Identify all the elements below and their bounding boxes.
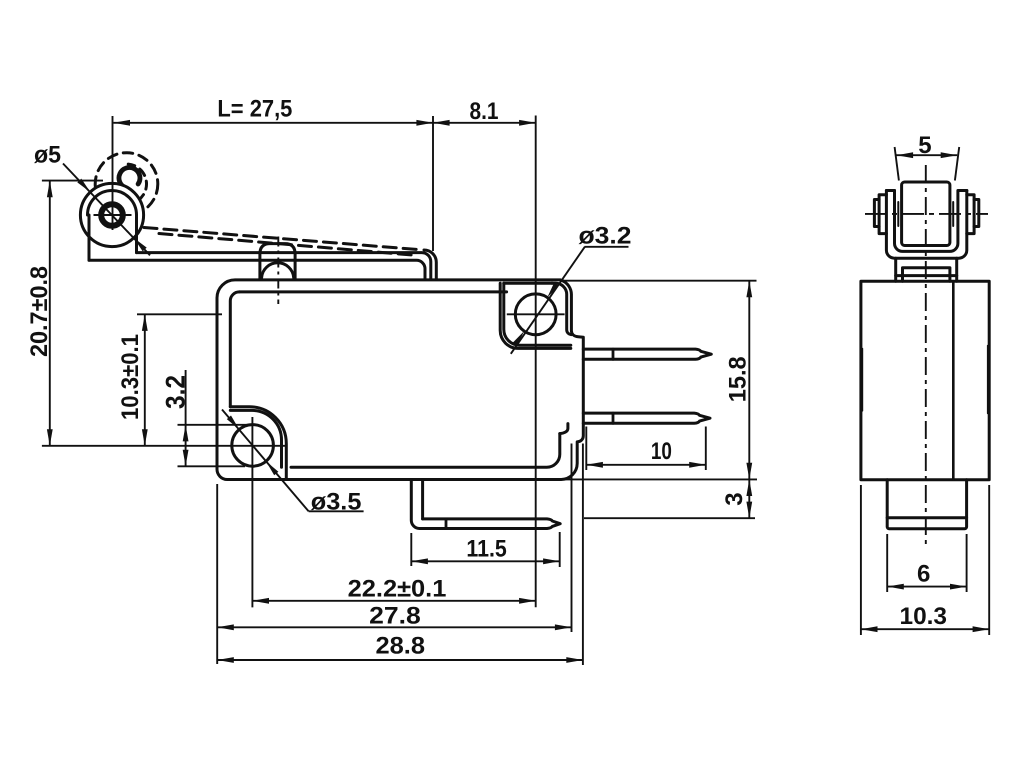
boss top-right outer xyxy=(504,283,571,345)
3 arrows xyxy=(746,479,752,496)
sv ext 6 left xyxy=(886,534,888,592)
boss bottom-left inner xyxy=(230,410,281,467)
body outline outer xyxy=(217,280,583,480)
10 arrows xyxy=(586,462,603,468)
sv dim 10.3 line xyxy=(861,628,989,630)
svg-text:10: 10 xyxy=(651,438,672,465)
boss top-right top xyxy=(504,282,552,285)
ext 11.5 right xyxy=(559,532,561,567)
svg-text:15.8: 15.8 xyxy=(725,356,752,402)
sv lever base left xyxy=(894,258,897,281)
sv lever end line xyxy=(896,274,957,277)
ext 27.8 right xyxy=(571,444,573,633)
leader o5 xyxy=(63,164,150,256)
bottom protrusion inner xyxy=(421,480,424,519)
ext 10.3 top xyxy=(137,313,222,315)
svg-text:8.1: 8.1 xyxy=(470,98,499,125)
terminal 2 tick xyxy=(612,413,615,423)
crosshair circle TR h xyxy=(507,313,565,315)
ext 28.8 right xyxy=(582,444,584,666)
dim line L xyxy=(113,122,433,124)
leader o3.2 xyxy=(511,247,585,354)
arrowheads o3.2 slash xyxy=(547,283,558,298)
bracket right xyxy=(135,215,138,253)
27.8 arrows xyxy=(217,624,234,630)
ext 20.7 top xyxy=(42,180,103,182)
sv centerline h xyxy=(865,213,988,215)
sv pin tick right xyxy=(952,202,954,226)
pin C arc xyxy=(119,168,140,188)
circle bottom-left xyxy=(232,425,274,467)
dim 27.8 line xyxy=(217,626,571,628)
sv nub left xyxy=(874,200,879,227)
svg-text:10.3±0.1: 10.3±0.1 xyxy=(117,334,144,420)
ext/crosshair circle TR v xyxy=(535,116,537,608)
dim 22.2 line xyxy=(252,600,535,602)
dim 11.5 line xyxy=(411,560,559,562)
L arrows xyxy=(113,120,130,126)
sv ext 5 right xyxy=(955,147,959,181)
22.2 arrows xyxy=(252,598,269,604)
sv 10.3 arrows xyxy=(861,626,878,632)
sv protrusion xyxy=(887,480,966,529)
ext 11.5 left xyxy=(410,533,412,566)
ext left body xyxy=(216,484,218,664)
ext 3.2 bottom xyxy=(178,465,246,467)
roller pin xyxy=(101,204,123,226)
15.8 arrows xyxy=(746,281,752,298)
28.8 arrows xyxy=(217,657,234,663)
sv body xyxy=(861,281,989,479)
dim 10 line xyxy=(586,464,706,466)
sv protrusion inner xyxy=(887,516,966,519)
5 arrows xyxy=(897,152,914,158)
sv ext 6 right xyxy=(966,534,968,592)
body inner right upper xyxy=(560,424,568,434)
sv fork outer xyxy=(886,191,966,259)
ext 10 right xyxy=(705,427,707,471)
sv ext 5 left xyxy=(895,147,899,181)
sv lever base right xyxy=(955,258,958,281)
leader o3.5 underline xyxy=(309,510,364,512)
body inner bottom xyxy=(291,434,560,468)
bracket arch xyxy=(88,191,137,215)
8.1 arrows xyxy=(433,120,450,126)
crosshair roller v + L extension xyxy=(112,116,114,230)
ext long bottom (20.7/10.3 bottom + BL circle crosshair h) xyxy=(42,445,285,447)
top-right inner corner xyxy=(552,283,571,334)
sv fork inner xyxy=(895,191,958,252)
6 arrows xyxy=(887,584,904,590)
terminal 2 xyxy=(583,413,710,423)
dimension texts xyxy=(26,96,947,660)
thin lines: dimensions, extensions, centerlines xyxy=(42,116,757,666)
lever dashed upper xyxy=(144,228,421,250)
side view xyxy=(861,182,989,529)
svg-text:3.2: 3.2 xyxy=(161,375,191,409)
svg-text:3: 3 xyxy=(721,492,748,505)
arrowheads o3.5 slash xyxy=(227,416,239,430)
ext 15.8 top xyxy=(563,280,757,282)
leader o3.2 underline xyxy=(585,246,629,248)
sv parting line xyxy=(952,281,955,479)
sv ext 10.3 right xyxy=(988,485,990,635)
centerline plunger xyxy=(277,237,279,305)
3.2 arrows xyxy=(183,425,189,442)
svg-text:27.8: 27.8 xyxy=(369,602,421,629)
svg-text:ø5: ø5 xyxy=(34,141,61,168)
crosshair roller h xyxy=(94,214,132,216)
sv centerline v xyxy=(925,165,927,549)
leader o3.5 xyxy=(222,410,309,512)
dim 20.7 vertical xyxy=(49,181,51,446)
body inner left xyxy=(230,292,239,407)
bracket arc dashed xyxy=(128,164,146,200)
sv fork caps xyxy=(886,189,966,192)
circle top-right xyxy=(515,294,556,335)
ext 3.2 top xyxy=(178,424,250,426)
svg-text:11.5: 11.5 xyxy=(466,535,506,562)
20.7 arrows xyxy=(47,181,53,198)
svg-text:ø3.5: ø3.5 xyxy=(311,488,362,515)
svg-text:ø3.2: ø3.2 xyxy=(579,223,632,250)
lever dashed lower xyxy=(159,234,412,256)
sv left notch line xyxy=(861,349,863,411)
dim 15.8 + 3 vertical xyxy=(748,281,750,519)
arrowheads xyxy=(47,120,989,663)
plunger dome inner xyxy=(262,263,294,278)
sv roller xyxy=(902,182,950,246)
svg-text:28.8: 28.8 xyxy=(376,633,426,660)
roller dashed (free position) xyxy=(95,153,158,216)
svg-text:L= 27,5: L= 27,5 xyxy=(217,96,292,123)
arrowheads o5 slash xyxy=(77,179,90,193)
ext body bottom right (15.8 bottom / 3 top) xyxy=(563,478,757,480)
10.3 arrows xyxy=(142,314,148,331)
body inner top xyxy=(239,290,506,293)
dim 28.8 line xyxy=(217,659,583,661)
svg-text:5: 5 xyxy=(918,132,931,159)
sv plunger xyxy=(903,268,950,282)
ext lever tip xyxy=(432,116,434,251)
dim 10.3 vertical xyxy=(144,314,146,446)
11.5 arrows xyxy=(411,558,428,564)
bracket left xyxy=(88,215,91,260)
lever tip outer bend xyxy=(424,250,436,279)
svg-text:10.3: 10.3 xyxy=(900,603,948,630)
svg-text:20.7±0.8: 20.7±0.8 xyxy=(26,266,53,357)
sv right notch line xyxy=(987,346,989,414)
boss top-right offset xyxy=(500,283,571,348)
sv ext 10.3 left xyxy=(860,485,862,635)
svg-text:6: 6 xyxy=(917,560,930,587)
sv dim 5 line xyxy=(897,154,958,156)
lever top xyxy=(137,253,431,280)
bottom protrusion outer xyxy=(411,480,560,529)
ext terminal surface (3 bottom) xyxy=(584,517,755,519)
boss bottom-left outer xyxy=(230,407,286,480)
svg-text:22.2±0.1: 22.2±0.1 xyxy=(348,575,447,602)
roller xyxy=(80,183,143,246)
terminal 1 xyxy=(583,349,711,359)
terminal 1 tick xyxy=(612,349,615,359)
sv pin tick left xyxy=(897,202,899,226)
sv ear left xyxy=(879,195,886,234)
bottom terminal tick xyxy=(445,519,448,529)
sv nub right xyxy=(974,200,979,227)
dim line 8.1 xyxy=(433,122,536,124)
plunger outline xyxy=(260,244,295,279)
crosshair BL circle v + 22.2 ext xyxy=(251,417,253,607)
sv dim 6 line xyxy=(887,586,966,588)
ext 10 left xyxy=(585,427,587,471)
sv ear right xyxy=(967,195,974,234)
lever bottom xyxy=(89,260,425,279)
dim 3.2 vertical xyxy=(185,370,187,466)
